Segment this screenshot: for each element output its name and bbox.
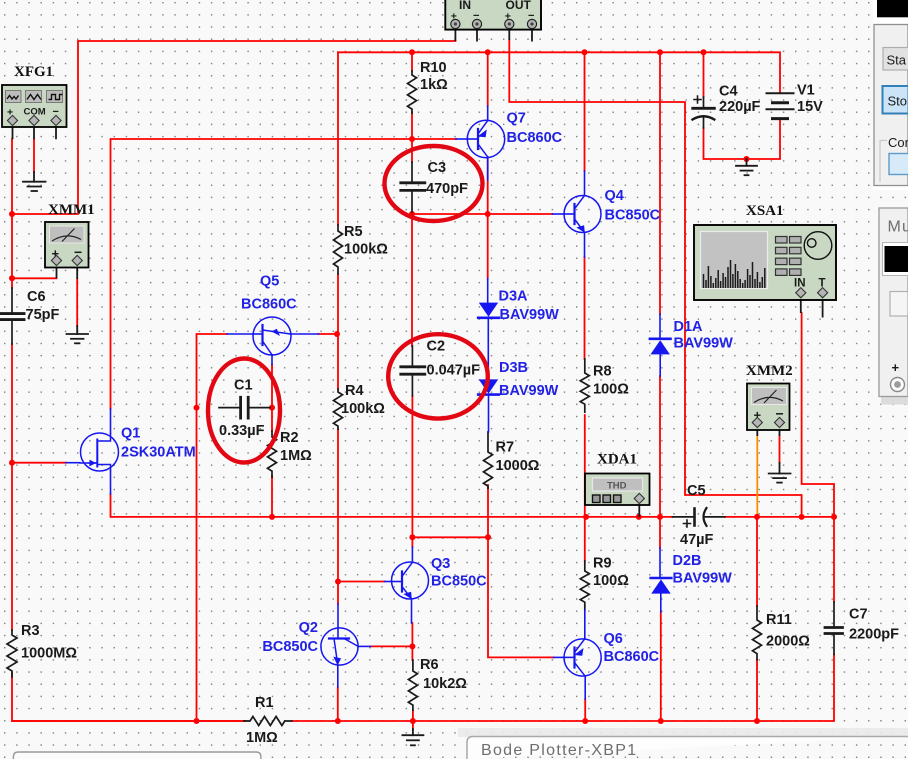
ground (R6 / bottom bus): [402, 729, 423, 745]
svg-text:IN: IN: [794, 278, 806, 290]
capacitor C3 470pF: [401, 162, 425, 212]
wire Q2 emitter to bottom bus: [337, 687, 339, 721]
svg-text:C6: C6: [27, 289, 46, 305]
wire Q1 drain lead: [110, 409, 112, 434]
wire XBP1 OUT+ down and across to mid-bus right junction: [509, 40, 801, 517]
annotation red ellipse around C2: [388, 334, 488, 418]
svg-text:Mu: Mu: [888, 219, 908, 236]
annotation red ellipse around C3: [385, 146, 483, 221]
svg-text:470pF: 470pF: [426, 181, 468, 197]
junction node Q2 base / Q3 base: [335, 579, 341, 585]
wire Q7 base lead: [456, 138, 468, 140]
wire node C3/Q7 emitter horizontal y=214 to Q4 base: [412, 213, 553, 215]
junction supply bus / C4 top: [701, 49, 707, 55]
wire C2 bottom to Q3 collector junction: [412, 396, 488, 547]
wire Q3 collector lead: [411, 547, 413, 562]
wire Q5 collector to R5/R4 chain: [319, 333, 339, 335]
svg-text:C2: C2: [427, 339, 446, 355]
wire Q4 emitter to R8: [584, 257, 586, 359]
junction node R7 bottom / Q6 base wire: [485, 534, 491, 540]
resistor R4 100kΩ: [334, 389, 343, 429]
wire Q1 gate branch: [12, 462, 66, 464]
wire C7 bottom to bottom bus corner: [292, 655, 834, 722]
wire Q1 source to mid bus y=516.9: [111, 494, 673, 517]
svg-text:Bode Plotter-XBP1: Bode Plotter-XBP1: [481, 742, 637, 759]
resistor R8 100Ω: [580, 359, 589, 412]
diode D2B BAV99W (cathode up): [651, 578, 672, 594]
wire C3 top lead: [411, 139, 413, 162]
wire R6 ground stem upper: [412, 721, 414, 729]
wire C4/V1 bottom loop with ground node: [704, 119, 781, 159]
svg-text:Cor: Cor: [888, 135, 908, 150]
ground (XMM1 minus): [67, 326, 89, 343]
junction bottom bus / Q6 emitter: [582, 718, 588, 724]
svg-text:BC860C: BC860C: [604, 649, 660, 665]
wire D1A leads: [659, 314, 661, 376]
junction bottom bus / Q5 base rail: [194, 718, 200, 724]
junction supply bus / Q7 collector: [485, 49, 491, 55]
svg-text:XMM2: XMM2: [746, 363, 793, 379]
wire XMM2 plus orange to mid bus: [756, 436, 758, 517]
svg-text:Q2: Q2: [299, 620, 318, 636]
wire Q4 emitter lead: [584, 233, 586, 258]
instrument XFG1 function generator symbol: [2, 85, 67, 139]
wire D2B bottom to bottom bus: [660, 612, 662, 721]
svg-text:R9: R9: [593, 556, 612, 572]
wire R5/R4 chain x=338: [337, 52, 339, 604]
svg-text:D3A: D3A: [499, 289, 529, 305]
wire Q3 emitter lead: [411, 599, 413, 623]
junction node C3 bottom / C2 top: [409, 211, 415, 217]
wire D2B leads: [659, 548, 662, 612]
svg-text:C7: C7: [849, 607, 868, 623]
wire Q4 base lead: [553, 213, 565, 215]
wire Q2 base lead: [337, 604, 339, 628]
wire mid bus to D2B: [659, 517, 661, 548]
wire Q7 emitter lead: [487, 157, 489, 180]
wire Q3 base branch: [338, 581, 385, 583]
svg-text:R5: R5: [344, 224, 363, 240]
svg-text:R3: R3: [21, 623, 40, 639]
svg-text:Q3: Q3: [431, 556, 450, 572]
svg-text:C5: C5: [687, 483, 706, 499]
svg-text:47µF: 47µF: [680, 532, 713, 548]
junction mid bus / XDA1 terminal: [636, 514, 642, 520]
svg-text:R6: R6: [420, 657, 439, 673]
svg-text:BAV99W: BAV99W: [673, 571, 733, 587]
svg-text:IN: IN: [459, 0, 471, 12]
svg-text:C1: C1: [234, 378, 253, 394]
junction bottom bus / Q2 emitter: [335, 718, 341, 724]
svg-text:V1: V1: [797, 83, 815, 99]
svg-text:2SK30ATM: 2SK30ATM: [121, 445, 196, 461]
capacitor C6 75pF: [0, 288, 24, 344]
svg-text:R10: R10: [420, 60, 447, 76]
junction left rail / XFG1 wire corner: [9, 211, 15, 217]
UI: right panel 2 Multimeter-XMM2 window (clipped): [879, 208, 908, 405]
svg-text:D1A: D1A: [674, 319, 704, 335]
wire Q1 source lead: [110, 471, 112, 495]
junction mid bus / R2 bottom: [269, 514, 275, 520]
capacitor C5 47µF (polarized, horizontal in mid bus): [673, 508, 725, 527]
wire Q1 gate lead: [66, 462, 80, 464]
capacitor C7 2200pF: [825, 602, 843, 655]
svg-text:R2: R2: [280, 430, 299, 446]
resistor R11 2000Ω: [753, 606, 762, 660]
svg-text:100kΩ: 100kΩ: [344, 242, 388, 258]
svg-text:Q4: Q4: [605, 188, 624, 204]
junction node Q5 collector / R5-R4 chain: [334, 331, 340, 337]
svg-text:Q7: Q7: [507, 111, 526, 127]
junction node C4-V1 ground: [744, 156, 750, 162]
wire Q5 base to C1 left rail down to bottom bus: [197, 334, 228, 721]
svg-text:+: +: [892, 360, 900, 375]
junction node C1 right / Q5 emitter / R2: [269, 405, 275, 411]
wire XSA1 IN down to C7 branch corner: [802, 313, 834, 602]
svg-text:BAV99W: BAV99W: [500, 307, 560, 323]
junction bottom bus / D2B chain: [658, 718, 664, 724]
svg-text:XDA1: XDA1: [597, 452, 637, 468]
junction mid bus / XSA1 IN wire / C7: [831, 514, 837, 520]
svg-text:1kΩ: 1kΩ: [420, 77, 448, 93]
instrument XMM1 multimeter symbol: [45, 222, 89, 279]
wire R2 bottom to mid bus: [271, 476, 273, 517]
wire C4 top from supply bus: [703, 52, 705, 97]
resistor R9 100Ω: [580, 561, 589, 610]
transistor Q5 BC860C (PNP): [253, 317, 291, 355]
svg-text:1MΩ: 1MΩ: [280, 448, 312, 464]
resistor R6 10k2Ω: [408, 660, 417, 710]
junction bottom bus / R11 bottom: [754, 718, 760, 724]
wire D1A chain x=660 from top bus: [659, 52, 661, 314]
resistor R1 1MΩ (horizontal, in bottom bus): [244, 717, 292, 726]
transistor Q1 2SK30ATM (N-JFET): [80, 433, 119, 471]
svg-text:R8: R8: [593, 364, 612, 380]
capacitor C4 220µF (polarized electrolytic): [693, 96, 715, 128]
wire left rail R3 to bottom bus corner: [12, 673, 245, 721]
diode D3B BAV99W (cathode down): [478, 379, 499, 394]
svg-text:220µF: 220µF: [719, 99, 761, 115]
svg-text:2200pF: 2200pF: [849, 627, 899, 643]
wire Q7 emitter to y=214 node: [487, 157, 489, 279]
instrument XSA1 spectrum analyzer symbol: [694, 225, 836, 318]
svg-text:100Ω: 100Ω: [593, 573, 629, 589]
svg-text:Q6: Q6: [604, 631, 623, 647]
svg-text:0.33µF: 0.33µF: [219, 423, 265, 439]
wire Q3 base lead: [385, 581, 392, 583]
junction left rail / Q1 gate branch: [9, 460, 15, 466]
wire Q2 emitter lead: [337, 665, 339, 687]
svg-text:C4: C4: [719, 84, 738, 100]
wire R10 leads: [411, 52, 413, 139]
instrument XMM2 multimeter symbol: [747, 384, 790, 437]
wire Q6 base lead: [554, 656, 565, 658]
wire Q4 collector lead: [584, 171, 586, 196]
wire XMM2 minus to ground: [779, 436, 781, 463]
svg-text:R1: R1: [255, 695, 274, 711]
junction left rail / XMM1 plus branch: [9, 275, 15, 281]
wire Q4 collector chain from top bus: [584, 52, 586, 171]
svg-text:C3: C3: [428, 160, 447, 176]
ground (C4/V1 supply): [736, 159, 757, 175]
diode D3A BAV99W (cathode down): [478, 303, 499, 318]
wire R11 bottom to bottom bus: [756, 660, 758, 722]
svg-text:Sta: Sta: [887, 53, 907, 68]
svg-text:R7: R7: [496, 440, 515, 456]
transistor Q2 BC850C (NPN, base at top): [321, 628, 358, 666]
wire Q3 emitter to R6 junction: [411, 623, 413, 660]
wire R11 from mid bus: [756, 517, 758, 606]
wire Q5 emitter lead: [271, 355, 273, 365]
junction mid bus / XBP1 OUT wire: [799, 514, 805, 520]
battery V1 15V: [767, 93, 794, 118]
resistor R5 100kΩ: [334, 225, 343, 274]
svg-text:Sto: Sto: [888, 94, 908, 109]
junction mid bus / D1A-D2B chain: [657, 514, 663, 520]
svg-text:1000Ω: 1000Ω: [496, 458, 540, 474]
junction node C1 left / Q5 base rail: [194, 405, 200, 411]
svg-text:D3B: D3B: [499, 360, 528, 376]
wire C3 bottom to C2 top: [411, 212, 413, 346]
wire Q6 collector lead: [584, 610, 586, 639]
wire Q2 collector to R6 top junction: [371, 645, 413, 647]
svg-text:THD: THD: [607, 481, 627, 492]
svg-text:XFG1: XFG1: [14, 64, 53, 80]
wire D1A bottom to mid bus: [659, 376, 661, 517]
junction node Q7 emitter / D3A: [485, 211, 491, 217]
resistor R7 1000Ω: [484, 432, 493, 488]
transistor Q7 BC860C (PNP): [467, 120, 504, 157]
transistor Q4 BC850C (NPN): [564, 196, 601, 233]
svg-text:BC860C: BC860C: [507, 130, 563, 146]
annotation red ellipse around C1: [208, 359, 280, 463]
wire left rail C6 to R3: [11, 344, 13, 630]
junction mid bus / R8-R9 chain: [583, 514, 589, 520]
wire XMM1 minus to ground: [76, 279, 78, 326]
wire Q5 emitter / C1 right / R2 chain: [271, 365, 273, 432]
wire mid bus right of C5: [725, 516, 834, 518]
wire Q5 collector lead: [291, 333, 319, 335]
junction mid bus / XMM2 plus / R11: [754, 514, 760, 520]
svg-text:BC850C: BC850C: [605, 208, 661, 224]
ground (XFG1 COM): [23, 172, 46, 191]
svg-text:15V: 15V: [797, 99, 823, 115]
svg-text:BC850C: BC850C: [431, 574, 487, 590]
svg-text:Q1: Q1: [121, 426, 140, 442]
junction supply bus / D1A chain: [657, 49, 663, 55]
wire R8 bottom to mid bus to R9 top: [584, 415, 586, 561]
svg-text:1MΩ: 1MΩ: [246, 730, 278, 746]
wire Q1 drain net to Q7 base (through R10/C3 junction): [111, 139, 457, 409]
svg-text:BC860C: BC860C: [241, 297, 297, 313]
svg-text:BAV99W: BAV99W: [499, 383, 559, 399]
wire top supply bus y=52.3: [338, 52, 780, 93]
junction node C2 bottom / Q3 collector: [409, 534, 415, 540]
wire left rail upper (XFG1 + terminal down): [11, 139, 13, 288]
svg-text:75pF: 75pF: [26, 307, 60, 323]
resistor R2 1MΩ: [268, 431, 277, 477]
diode D1A BAV99W (cathode up): [650, 339, 671, 355]
junction node Q3 emitter / Q2 collector / R6: [409, 643, 415, 649]
junction node R10-C3-Q1 drain-Q7 base: [409, 136, 415, 142]
instrument XDA1 distortion analyzer symbol: [585, 474, 650, 517]
wire R7 bottom to Q6 base corner: [488, 485, 554, 657]
wire Q7 collector from top bus: [487, 52, 489, 106]
wire XMM1 plus branch: [12, 277, 57, 279]
wire top-left bus from XBP1 IN+ to left rail corner: [12, 41, 455, 214]
ground (XMM2 minus): [769, 463, 791, 483]
svg-text:2000Ω: 2000Ω: [766, 634, 810, 650]
junction bottom bus / R6 ground: [410, 718, 416, 724]
wire R6 bottom to bottom bus: [412, 710, 414, 721]
svg-text:0.047µF: 0.047µF: [427, 363, 481, 379]
instrument XBP1 bode plotter symbol (top, partially visible): [445, 0, 541, 42]
svg-text:R4: R4: [345, 383, 364, 399]
capacitor C2 0.047µF: [401, 346, 425, 396]
wire Q6 emitter lead: [584, 676, 586, 699]
wire Q5 base lead: [227, 333, 254, 335]
transistor Q6 BC860C (PNP): [564, 639, 601, 676]
wire Q2 collector lead: [358, 645, 370, 647]
wire D3A-D3B leads: [487, 279, 490, 433]
junction supply bus / Q4 collector: [582, 49, 588, 55]
svg-text:1000MΩ: 1000MΩ: [21, 646, 77, 662]
svg-text:10k2Ω: 10k2Ω: [423, 676, 467, 692]
resistor R3 1000MΩ: [7, 630, 17, 677]
junction supply bus / R10 top: [409, 49, 415, 55]
svg-text:XMM1: XMM1: [48, 202, 95, 218]
svg-text:R11: R11: [766, 612, 792, 628]
wire bottom bus left of R1: [12, 720, 244, 722]
capacitor C1 0.33µF (horizontal): [219, 397, 270, 418]
svg-text:Q5: Q5: [260, 274, 279, 290]
svg-text:XSA1: XSA1: [746, 203, 784, 219]
svg-text:100Ω: 100Ω: [593, 382, 629, 398]
svg-text:D2B: D2B: [673, 553, 702, 569]
svg-text:BC850C: BC850C: [262, 639, 318, 655]
UI: bottom-left window edge (clipped): [13, 752, 261, 759]
resistor R10 1kΩ: [408, 71, 417, 113]
wire Q7 collector lead: [487, 106, 489, 121]
UI: bottom window Bode Plotter-XBP1 (title bar clipped): [458, 728, 908, 759]
svg-text:100kΩ: 100kΩ: [341, 401, 385, 417]
UI: right instrument panel 1 (spectrum analyzer front panel, clipped): [873, 0, 908, 190]
svg-text:BAV99W: BAV99W: [674, 336, 734, 352]
wire XFG1 COM to ground: [33, 139, 35, 172]
wire R9 bottom blue handled at Q6; emitter to bottom bus: [584, 699, 586, 721]
transistor Q3 BC850C (NPN, rotated): [392, 562, 429, 599]
